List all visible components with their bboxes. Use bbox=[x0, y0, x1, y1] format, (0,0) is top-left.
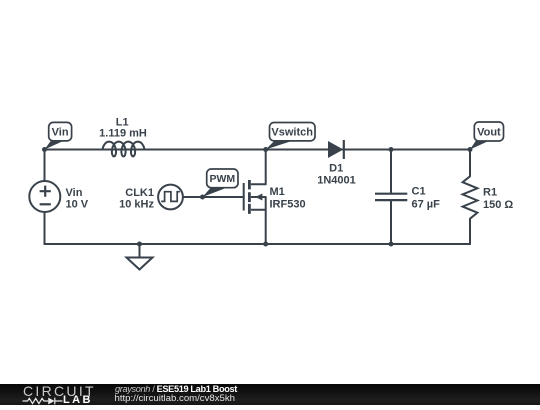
footer logo squiggle bbox=[22, 396, 64, 406]
svg-text:L1: L1 bbox=[116, 116, 129, 128]
footer logo LAB bbox=[63, 396, 93, 404]
svg-text:10 kHz: 10 kHz bbox=[119, 199, 154, 211]
wire left rail lower bbox=[44, 212, 46, 244]
flag PWM bbox=[203, 169, 239, 197]
footer url line bbox=[115, 393, 236, 404]
svg-text:150 Ω: 150 Ω bbox=[483, 199, 513, 211]
diode D1 bbox=[328, 140, 344, 159]
svg-text:R1: R1 bbox=[483, 186, 497, 198]
wire bottom rail bbox=[45, 243, 471, 245]
svg-text:PWM: PWM bbox=[209, 173, 235, 185]
wire ground stem bbox=[139, 244, 141, 258]
svg-text:Vswitch: Vswitch bbox=[271, 127, 313, 139]
wire mosfet drain bbox=[265, 150, 267, 185]
mosfet M1 bbox=[244, 180, 266, 214]
svg-text:D1: D1 bbox=[329, 162, 343, 174]
labels bbox=[66, 116, 514, 210]
flag Vswitch bbox=[266, 123, 315, 150]
footer title line bbox=[115, 384, 237, 394]
junction node cap bottom bbox=[389, 242, 394, 247]
svg-text:M1: M1 bbox=[270, 186, 285, 198]
capacitor C1 bbox=[375, 194, 407, 200]
svg-text:67 µF: 67 µF bbox=[412, 199, 441, 211]
clock source CLK1 bbox=[158, 185, 183, 210]
junction node source bottom bbox=[263, 242, 268, 247]
svg-text:IRF530: IRF530 bbox=[270, 199, 306, 211]
wire capacitor upper bbox=[390, 150, 392, 194]
flag Vin bbox=[45, 122, 72, 149]
footer bar bbox=[0, 384, 540, 405]
voltage source V1 Vin bbox=[29, 181, 60, 212]
junction node ground bbox=[137, 242, 142, 247]
svg-text:10 V: 10 V bbox=[66, 199, 89, 211]
junction node Vout bbox=[468, 147, 473, 152]
wire clk to gate bbox=[183, 196, 244, 198]
junction node PWM bbox=[200, 195, 205, 200]
junction node Vswitch bbox=[263, 147, 268, 152]
svg-text:C1: C1 bbox=[412, 185, 426, 197]
inductor L1 bbox=[103, 142, 145, 157]
footer logo CIRCUIT bbox=[23, 385, 96, 398]
wire right rail lower bbox=[469, 219, 471, 244]
junction node Vin bbox=[42, 147, 47, 152]
svg-text:1.119 mH: 1.119 mH bbox=[99, 128, 147, 140]
svg-text:Vout: Vout bbox=[477, 127, 501, 139]
wire left rail upper bbox=[44, 150, 46, 182]
flag Vout bbox=[470, 122, 504, 150]
wire capacitor lower bbox=[390, 200, 392, 244]
wire right rail upper bbox=[469, 150, 471, 177]
svg-text:CLK1: CLK1 bbox=[125, 187, 154, 199]
wire mosfet source bbox=[265, 197, 267, 244]
ground bbox=[127, 258, 153, 270]
svg-text:Vin: Vin bbox=[52, 127, 69, 139]
svg-text:Vin: Vin bbox=[66, 187, 83, 199]
wire top rail bbox=[45, 149, 471, 151]
junction node cap top bbox=[389, 147, 394, 152]
svg-text:1N4001: 1N4001 bbox=[317, 174, 356, 186]
resistor R1 bbox=[463, 176, 478, 218]
